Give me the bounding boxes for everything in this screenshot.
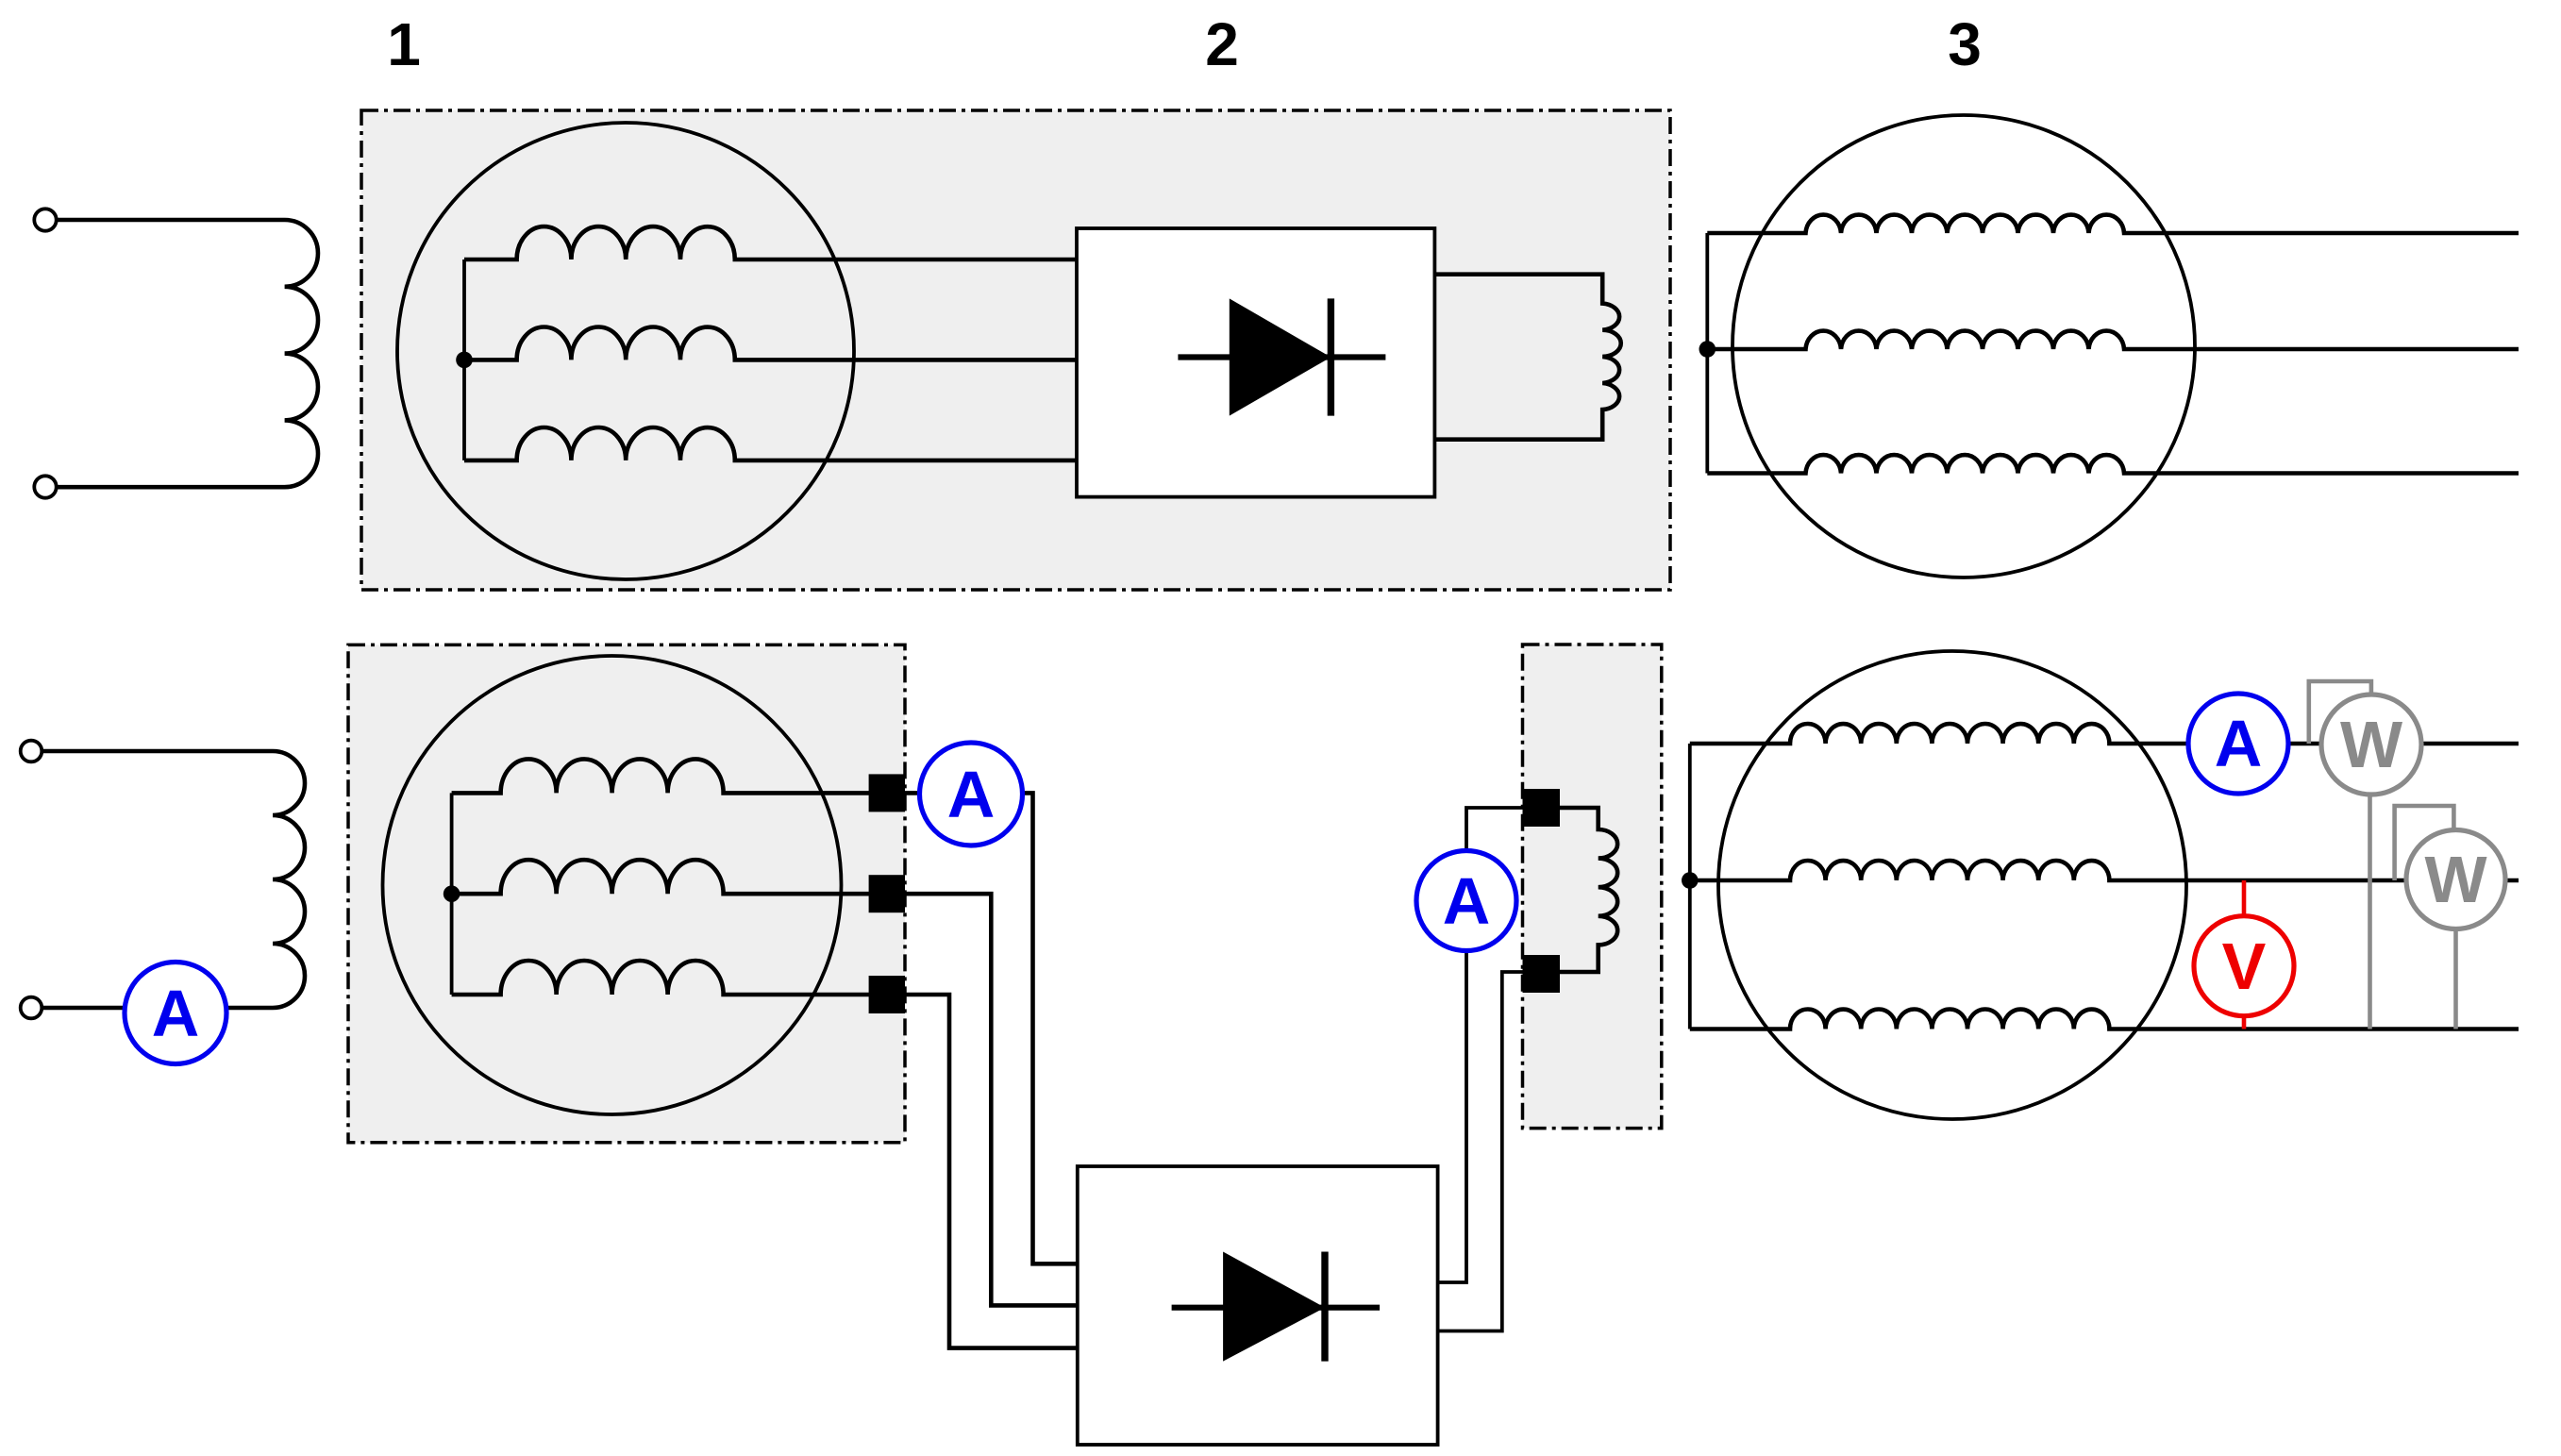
svg-text:A: A <box>152 977 200 1050</box>
svg-text:A: A <box>1443 864 1491 938</box>
svg-text:3: 3 <box>1948 10 1982 78</box>
svg-text:1: 1 <box>387 10 421 78</box>
svg-text:A: A <box>2215 707 2263 780</box>
svg-text:W: W <box>2340 708 2402 781</box>
svg-text:V: V <box>2222 929 2267 1003</box>
svg-text:W: W <box>2424 843 2486 916</box>
svg-text:2: 2 <box>1205 10 1239 78</box>
svg-text:A: A <box>947 758 996 831</box>
